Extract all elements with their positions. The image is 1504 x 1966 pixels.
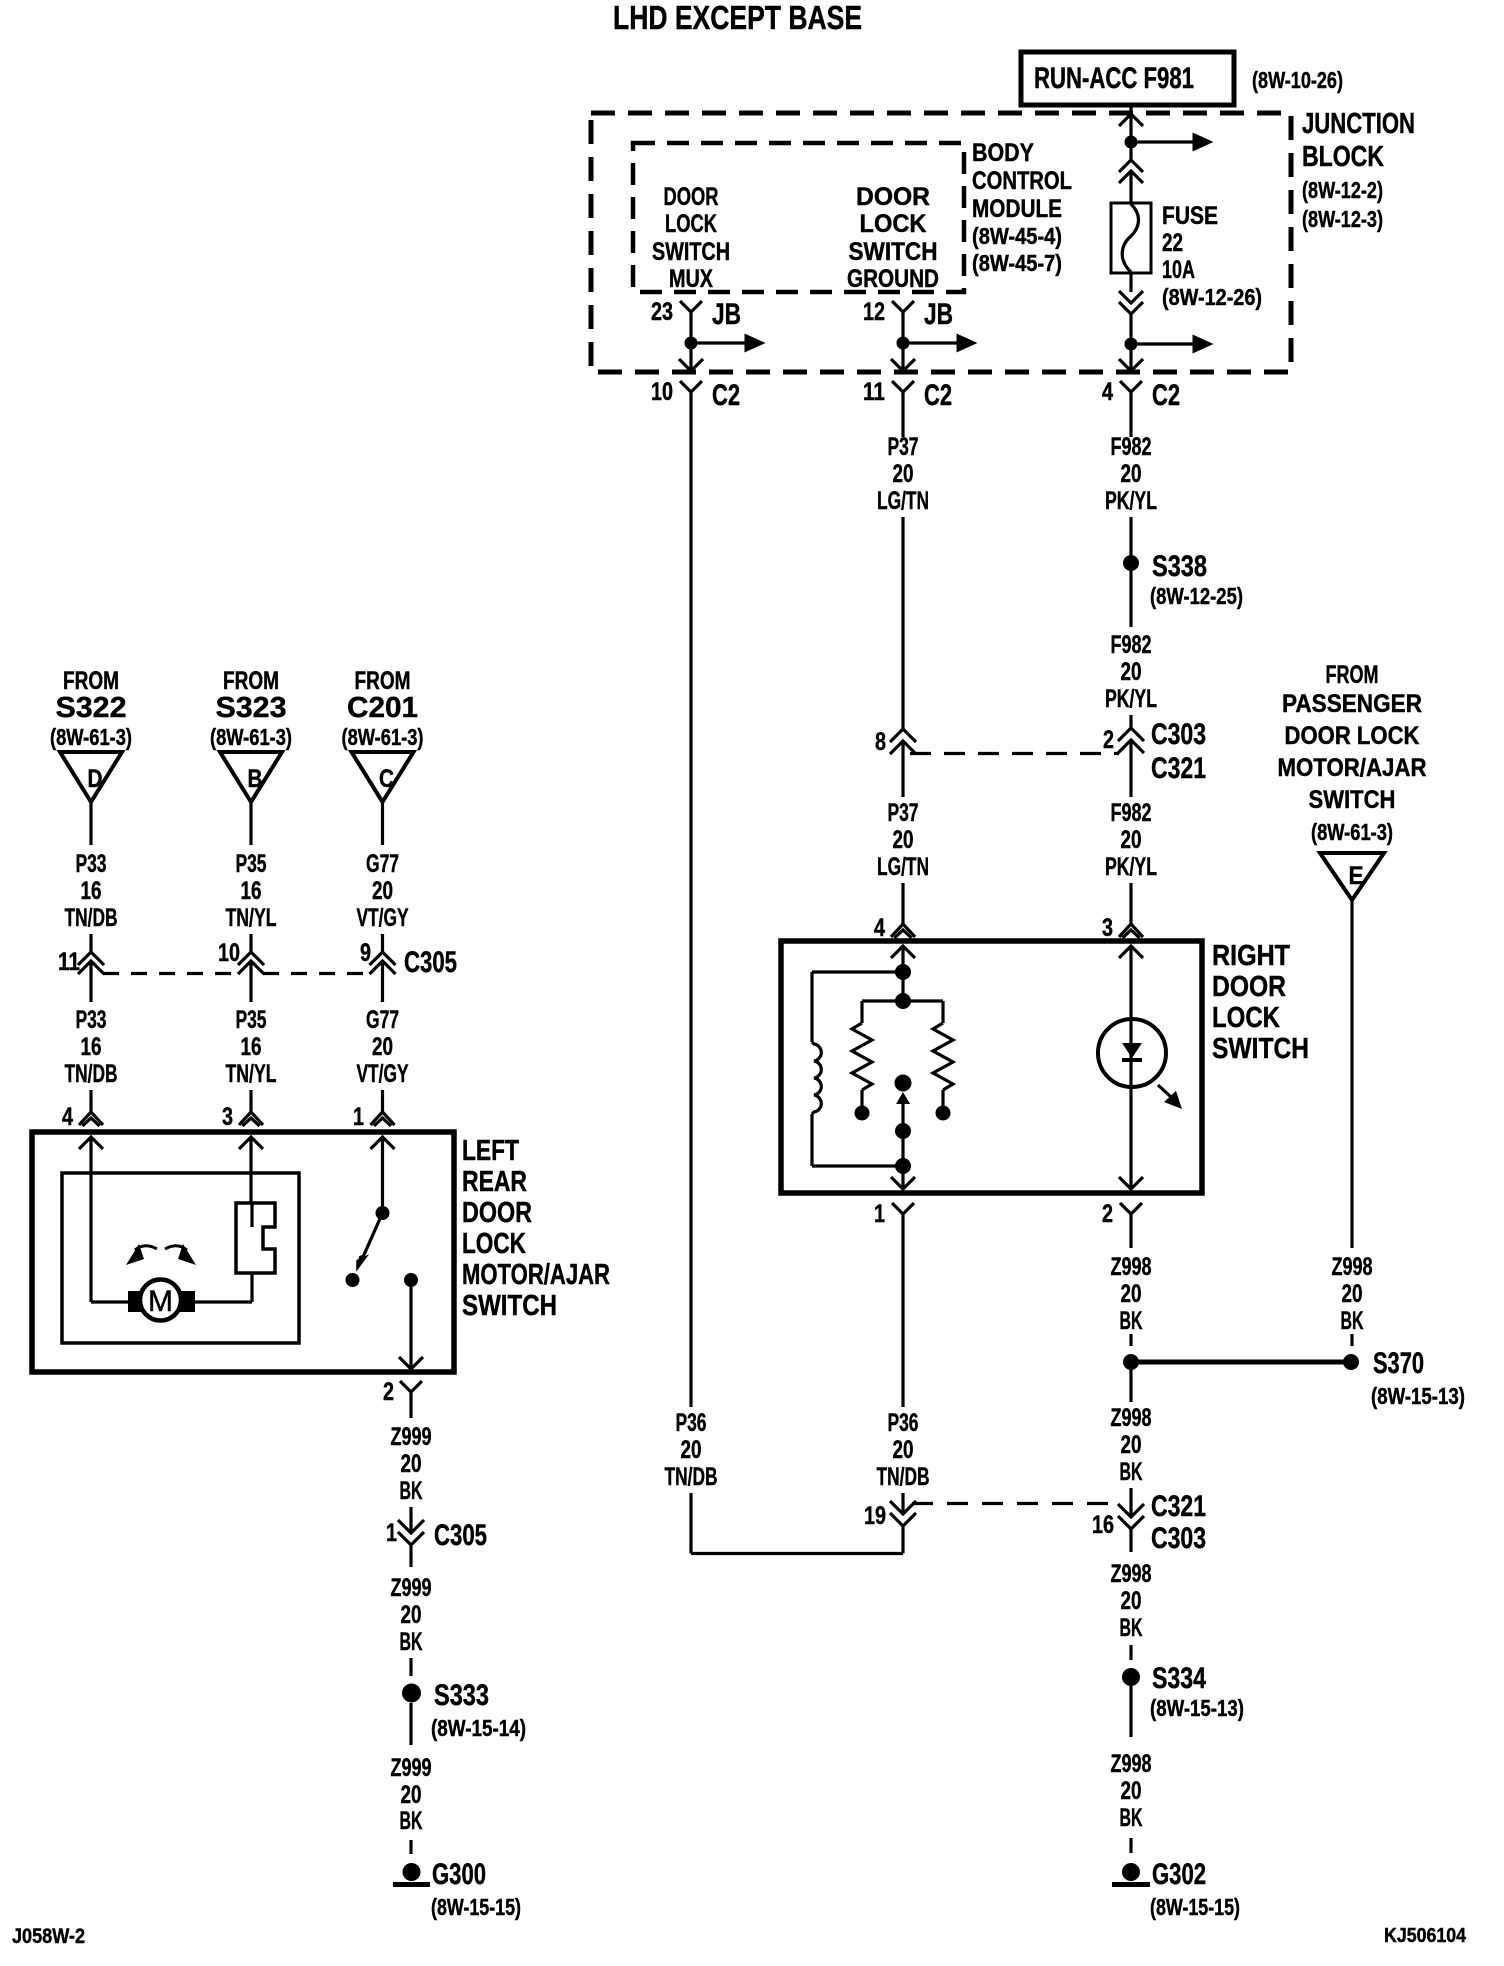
arrow mux circuit continuation (698, 334, 766, 353)
ground G302 (1112, 1858, 1240, 1920)
svg-text:20: 20 (893, 1436, 914, 1464)
fuse 22 10A (1111, 203, 1151, 273)
svg-text:16: 16 (1092, 1511, 1114, 1539)
svg-text:BK: BK (400, 1477, 423, 1505)
ajar switch contact open (346, 1273, 360, 1287)
wire (901, 785, 904, 797)
svg-text:G77: G77 (366, 850, 399, 878)
svg-text:FROM: FROM (223, 667, 279, 695)
wire (409, 1280, 412, 1369)
wire from RUN-ACC F981 into junction block (1129, 105, 1132, 116)
wire label P33 16 TN/DB lower (65, 1006, 118, 1088)
svg-text:(8W-15-14): (8W-15-14) (431, 1715, 526, 1741)
contact unlock (936, 1106, 951, 1121)
svg-text:D: D (88, 765, 103, 793)
dashed connector tie line C305 (103, 972, 371, 975)
node (895, 1123, 911, 1139)
svg-text:KJ506104: KJ506104 (1384, 1925, 1467, 1947)
node resistor branch junction (895, 993, 911, 1009)
svg-text:BK: BK (1120, 1614, 1143, 1642)
wire (1129, 1838, 1132, 1853)
wire label Z998 20 BK (1111, 1253, 1152, 1335)
wire label F982 20 PK/YL lower (1105, 799, 1157, 881)
BCM door lock switch ground label (847, 183, 939, 293)
off-page connector C (352, 752, 414, 802)
svg-text:FROM: FROM (1326, 661, 1379, 689)
svg-text:(8W-61-3): (8W-61-3) (210, 724, 292, 750)
wire (381, 997, 384, 1002)
wire (901, 343, 904, 369)
wire motor right lead (195, 1273, 252, 1302)
wire (1129, 273, 1132, 292)
svg-text:JUNCTION: JUNCTION (1302, 108, 1415, 140)
svg-text:16: 16 (81, 1033, 102, 1061)
svg-text:FROM: FROM (63, 667, 119, 695)
node pin 12 junction (897, 337, 910, 350)
svg-text:F982: F982 (1111, 433, 1152, 461)
inline connector C305 pin 11 (58, 948, 104, 997)
resistor lock side (852, 1023, 872, 1107)
svg-text:TN/YL: TN/YL (226, 904, 277, 932)
svg-text:M: M (148, 1285, 173, 1318)
svg-text:Z999: Z999 (391, 1423, 432, 1451)
wire (901, 1166, 904, 1190)
svg-text:JB: JB (924, 298, 953, 331)
label FROM S323 (210, 667, 292, 750)
svg-text:20: 20 (1342, 1280, 1363, 1308)
svg-text:SWITCH: SWITCH (1212, 1033, 1309, 1065)
svg-text:20: 20 (681, 1436, 702, 1464)
connector male half pin 4 inside box (891, 946, 915, 972)
svg-text:(8W-45-7): (8W-45-7) (972, 250, 1062, 276)
wire motor left lead (91, 1300, 128, 1303)
connector pin 1 exit (874, 1200, 914, 1240)
wire label P36 20 TN/DB right (877, 1409, 930, 1491)
svg-text:TN/YL: TN/YL (226, 1060, 277, 1088)
svg-text:F982: F982 (1111, 631, 1152, 659)
svg-text:10: 10 (218, 939, 240, 967)
svg-text:LG/TN: LG/TN (877, 853, 929, 881)
wire (249, 997, 252, 1002)
svg-text:B: B (248, 765, 263, 793)
svg-text:P33: P33 (76, 850, 107, 878)
svg-text:20: 20 (401, 1601, 422, 1629)
wire (89, 1090, 92, 1112)
svg-text:(8W-61-3): (8W-61-3) (342, 724, 424, 750)
svg-text:9: 9 (360, 939, 371, 967)
svg-text:20: 20 (372, 877, 393, 905)
connector male half pin 2 inside box (1119, 1177, 1143, 1189)
coil winding (812, 1042, 821, 1114)
node switch common junction (895, 964, 911, 980)
arrow fused feed to other circuits (1138, 335, 1214, 354)
wire resistor branch left (862, 1001, 903, 1023)
connector C2 pin 4 (1102, 378, 1180, 428)
connector JB pin 23 (651, 298, 741, 343)
svg-text:16: 16 (241, 1033, 262, 1061)
svg-text:PK/YL: PK/YL (1105, 853, 1157, 881)
ground G300 (393, 1858, 521, 1920)
svg-text:LOCK: LOCK (462, 1228, 526, 1260)
svg-text:C2: C2 (924, 379, 952, 412)
off-page connector D (60, 752, 122, 802)
right door lock switch box (781, 941, 1202, 1193)
svg-text:(8W-15-13): (8W-15-13) (1150, 1695, 1244, 1721)
svg-text:4: 4 (874, 914, 885, 942)
svg-text:20: 20 (893, 826, 914, 854)
wire label P36 20 TN/DB (665, 1409, 718, 1491)
connector male half pin 1 inside box (891, 1177, 915, 1189)
wire label G77 20 VT/GY (357, 850, 409, 932)
svg-text:(8W-12-3): (8W-12-3) (1302, 206, 1383, 232)
connector pin 3 left box (222, 1103, 263, 1131)
svg-text:LOCK: LOCK (1212, 1002, 1280, 1034)
svg-text:G302: G302 (1152, 1858, 1206, 1891)
lock position contact (236, 1203, 275, 1273)
svg-text:C: C (379, 765, 394, 793)
svg-text:C305: C305 (404, 946, 457, 979)
connector C2 pin 11 (863, 378, 952, 428)
svg-text:11: 11 (863, 378, 885, 406)
inline connector double chevron above fuse (1119, 160, 1143, 183)
wire (901, 1240, 904, 1407)
svg-text:16: 16 (81, 877, 102, 905)
svg-text:LOCK: LOCK (860, 210, 927, 238)
svg-text:DOOR LOCK: DOOR LOCK (1285, 722, 1420, 750)
connector pin 1 left box (353, 1103, 395, 1131)
label from passenger door lock motor/ajar switch (1278, 661, 1427, 845)
svg-text:1: 1 (353, 1103, 364, 1131)
svg-text:PK/YL: PK/YL (1105, 487, 1157, 515)
svg-text:BK: BK (1341, 1307, 1364, 1335)
ajar switch contact feed (376, 1206, 390, 1220)
dashed connector tie line lower (912, 1502, 1120, 1505)
svg-text:LG/TN: LG/TN (877, 487, 929, 515)
svg-text:BK: BK (400, 1628, 423, 1656)
inline connector C305 pin 10 (218, 939, 264, 997)
wire (901, 972, 904, 1001)
svg-text:MODULE: MODULE (972, 195, 1062, 223)
footer drawing number (1384, 1925, 1467, 1947)
connector male half pin 3 inside left box (239, 1137, 263, 1203)
connector pin 3 right door lock switch (1102, 914, 1143, 942)
svg-text:BK: BK (1120, 1307, 1143, 1335)
svg-text:C305: C305 (434, 1519, 487, 1552)
svg-text:(8W-12-26): (8W-12-26) (1162, 284, 1262, 310)
svg-text:C303: C303 (1151, 1522, 1206, 1555)
svg-text:12: 12 (863, 298, 885, 326)
inline connector C305 pin 9 (360, 939, 457, 997)
wire (409, 1658, 412, 1676)
connector male half pin 4 at block edge (1119, 359, 1143, 371)
svg-text:S338: S338 (1152, 550, 1207, 583)
svg-text:4: 4 (1102, 378, 1113, 406)
svg-text:DOOR: DOOR (462, 1197, 532, 1229)
BCM door lock switch mux label (652, 183, 730, 293)
svg-text:2: 2 (1102, 1200, 1113, 1228)
connector pin 4 right door lock switch (874, 914, 915, 942)
connector male half pin 3 inside box (1119, 946, 1143, 1019)
arrow ground circuit continuation (910, 334, 978, 353)
wire (1129, 571, 1132, 627)
svg-text:G300: G300 (432, 1858, 486, 1891)
svg-text:RUN-ACC F981: RUN-ACC F981 (1034, 62, 1194, 95)
svg-text:REAR: REAR (462, 1166, 527, 1198)
wire (901, 517, 904, 729)
svg-text:TN/DB: TN/DB (65, 904, 118, 932)
node coil return junction (895, 1158, 911, 1174)
wire (1129, 344, 1132, 369)
svg-text:P37: P37 (888, 433, 919, 461)
wire label Z999 20 BK (391, 1423, 432, 1505)
node fuse feed junction (1125, 136, 1138, 149)
wire (689, 343, 692, 369)
wire (1129, 785, 1132, 797)
body control module dashed box (633, 143, 964, 292)
junction block dashed boundary (591, 113, 1291, 372)
ajar switch blade (356, 1213, 382, 1272)
svg-text:P35: P35 (236, 1006, 267, 1034)
svg-text:20: 20 (1121, 1431, 1142, 1459)
svg-text:SWITCH: SWITCH (462, 1290, 557, 1322)
wire coil return (812, 1114, 903, 1166)
wire label P35 16 TN/YL lower (226, 1006, 277, 1088)
splice S370 (1131, 1347, 1465, 1409)
splice S334 (1122, 1662, 1244, 1721)
svg-text:VT/GY: VT/GY (357, 1060, 409, 1088)
svg-text:C321: C321 (1151, 752, 1206, 785)
wire (409, 1507, 412, 1533)
wire (901, 1131, 904, 1166)
svg-text:TN/DB: TN/DB (877, 1463, 930, 1491)
svg-text:S323: S323 (216, 692, 287, 724)
svg-text:20: 20 (893, 460, 914, 488)
junction block label (1302, 108, 1415, 232)
svg-text:G77: G77 (366, 1006, 399, 1034)
wire (381, 934, 384, 952)
svg-text:SWITCH: SWITCH (1309, 786, 1396, 814)
svg-text:Z998: Z998 (1111, 1560, 1152, 1588)
svg-text:BK: BK (1120, 1458, 1143, 1486)
svg-text:CONTROL: CONTROL (972, 167, 1072, 195)
svg-text:RIGHT: RIGHT (1212, 940, 1290, 972)
svg-text:FROM: FROM (355, 667, 411, 695)
svg-text:LOCK: LOCK (665, 210, 717, 238)
svg-text:Z998: Z998 (1111, 1404, 1152, 1432)
dashed connector tie line (910, 752, 1119, 755)
wire (901, 428, 904, 437)
svg-text:FUSE: FUSE (1162, 202, 1218, 230)
connector male half pin 1 inside left box (371, 1137, 395, 1206)
svg-text:2: 2 (1103, 726, 1114, 754)
title LHD EXCEPT BASE (613, 0, 862, 36)
svg-text:10A: 10A (1162, 256, 1195, 284)
svg-text:(8W-12-25): (8W-12-25) (1150, 583, 1243, 609)
svg-text:C201: C201 (347, 692, 418, 724)
lock indicator LED (1098, 1019, 1166, 1190)
wire (89, 934, 92, 952)
svg-text:3: 3 (1102, 914, 1113, 942)
svg-text:(8W-12-2): (8W-12-2) (1302, 177, 1383, 203)
connector male half pin 11 at block edge (891, 359, 915, 371)
wire label Z998 20 BK third (1111, 1560, 1152, 1642)
svg-text:(8W-61-3): (8W-61-3) (50, 724, 132, 750)
motor M (128, 1280, 195, 1321)
off-page connector B (220, 752, 282, 802)
wire label F982 20 PK/YL (1105, 433, 1157, 515)
inline connector C321/C303 pin 16 (1092, 1490, 1206, 1555)
svg-text:P33: P33 (76, 1006, 107, 1034)
svg-text:20: 20 (1121, 460, 1142, 488)
svg-text:Z999: Z999 (391, 1754, 432, 1782)
svg-text:(8W-45-4): (8W-45-4) (972, 223, 1062, 249)
svg-text:(8W-15-15): (8W-15-15) (431, 1894, 521, 1920)
off-page connector E (1320, 853, 1384, 900)
svg-text:P35: P35 (236, 850, 267, 878)
svg-text:BODY: BODY (972, 139, 1034, 167)
label FROM S322 (50, 667, 132, 750)
wire (1129, 715, 1132, 728)
splice S333 (402, 1679, 526, 1741)
wire (381, 1090, 384, 1112)
svg-text:LHD EXCEPT BASE: LHD EXCEPT BASE (613, 0, 862, 36)
svg-text:BLOCK: BLOCK (1302, 141, 1384, 173)
wire (1129, 428, 1132, 437)
wire label G77 20 VT/GY lower (357, 1006, 409, 1088)
wire (1129, 314, 1132, 344)
svg-text:20: 20 (1121, 1587, 1142, 1615)
fuse label (1162, 202, 1262, 310)
svg-text:C321: C321 (1151, 1490, 1206, 1523)
svg-text:20: 20 (1121, 1280, 1142, 1308)
wire (1129, 1645, 1132, 1660)
svg-text:(8W-61-3): (8W-61-3) (1311, 819, 1393, 845)
svg-text:S334: S334 (1152, 1662, 1206, 1695)
inline connector C303/C321 pin 8 (875, 728, 916, 785)
svg-text:GROUND: GROUND (847, 265, 939, 293)
wire label P37 20 LG/TN (877, 433, 929, 515)
connector male half pin 10 at block edge (679, 359, 703, 371)
svg-text:22: 22 (1162, 229, 1183, 257)
fuse feed box RUN-ACC F981 (1021, 52, 1234, 105)
wire (1129, 1370, 1132, 1402)
svg-text:PK/YL: PK/YL (1105, 685, 1157, 713)
connector JB pin 12 (863, 298, 953, 343)
wire (1350, 1334, 1353, 1346)
svg-text:VT/GY: VT/GY (357, 904, 409, 932)
svg-text:MOTOR/AJAR: MOTOR/AJAR (462, 1259, 610, 1291)
svg-text:(8W-15-13): (8W-15-13) (1371, 1383, 1465, 1409)
inline connector C305 pin 1 (386, 1519, 487, 1567)
right door lock switch label (1212, 940, 1309, 1065)
svg-text:20: 20 (1121, 826, 1142, 854)
ajar switch contact output (404, 1273, 418, 1287)
svg-text:JB: JB (712, 298, 741, 331)
svg-text:PASSENGER: PASSENGER (1282, 690, 1422, 718)
wire (1129, 1240, 1132, 1248)
wire P33 upper (89, 802, 92, 845)
svg-text:(8W-15-15): (8W-15-15) (1150, 1894, 1240, 1920)
svg-text:F982: F982 (1111, 799, 1152, 827)
svg-text:SWITCH: SWITCH (849, 238, 938, 266)
connector pin 4 left box (62, 1103, 103, 1131)
svg-text:3: 3 (222, 1103, 233, 1131)
wire (1129, 1488, 1132, 1517)
LED indicator arrow (1158, 1085, 1182, 1109)
svg-text:10: 10 (651, 378, 673, 406)
wire (901, 1493, 904, 1514)
svg-text:DOOR: DOOR (664, 183, 719, 211)
connector male half pin 2 inside left box (399, 1357, 423, 1369)
left rear door lock motor/ajar switch box (32, 1132, 454, 1372)
wire Z998 from connector E (1350, 900, 1353, 1248)
wire (249, 934, 252, 952)
node fused output junction (1125, 338, 1138, 351)
svg-text:BK: BK (400, 1807, 423, 1835)
wire (1129, 1334, 1132, 1346)
wire resistor branch right (903, 1001, 943, 1023)
wire (409, 1703, 412, 1745)
svg-text:2: 2 (383, 1378, 394, 1406)
svg-text:20: 20 (1121, 1777, 1142, 1805)
svg-text:4: 4 (62, 1103, 73, 1131)
connector C2 pin 10 (651, 378, 740, 428)
wire label Z999 20 BK third (391, 1754, 432, 1835)
svg-text:C2: C2 (1152, 379, 1180, 412)
svg-text:C303: C303 (1151, 718, 1206, 751)
svg-text:8: 8 (875, 728, 886, 756)
wire label Z998 20 BK fourth (1111, 1750, 1152, 1832)
svg-text:DOOR: DOOR (1212, 971, 1286, 1003)
contact lock (855, 1106, 870, 1121)
svg-text:Z998: Z998 (1111, 1750, 1152, 1778)
wire (1129, 883, 1132, 924)
svg-text:LEFT: LEFT (462, 1135, 519, 1167)
wire label P33 16 TN/DB (65, 850, 118, 932)
wire label P37 20 LG/TN lower (877, 799, 929, 881)
wire (691, 1493, 903, 1554)
svg-text:Z998: Z998 (1332, 1253, 1373, 1281)
wire (1129, 517, 1132, 555)
splice S338 (1123, 550, 1243, 609)
svg-text:23: 23 (651, 298, 673, 326)
wire G77 upper (381, 802, 384, 845)
svg-text:P37: P37 (888, 799, 919, 827)
BCM name label (972, 139, 1072, 276)
wire (249, 1090, 252, 1112)
svg-text:S322: S322 (56, 692, 127, 724)
resistor unlock side (933, 1023, 953, 1107)
svg-text:1: 1 (386, 1519, 397, 1547)
motor assembly inner box (62, 1173, 299, 1343)
svg-text:(8W-10-26): (8W-10-26) (1252, 67, 1343, 93)
svg-text:P36: P36 (888, 1409, 919, 1437)
svg-text:MOTOR/AJAR: MOTOR/AJAR (1278, 754, 1427, 782)
wire P36 from C2 pin 10 (689, 428, 692, 1407)
wire label Z999 20 BK second (391, 1574, 432, 1656)
motor rotation arrows (126, 1244, 196, 1265)
wire (1129, 116, 1132, 142)
wire label P35 16 TN/YL (226, 850, 277, 932)
node S370 tie junction (1123, 1354, 1139, 1370)
svg-text:P36: P36 (676, 1409, 707, 1437)
connector pin 2 exit (1102, 1200, 1142, 1240)
svg-text:C2: C2 (712, 379, 740, 412)
wire (1129, 171, 1132, 203)
svg-text:S333: S333 (434, 1679, 489, 1712)
node pin 23 junction (685, 337, 698, 350)
svg-text:19: 19 (864, 1502, 886, 1530)
